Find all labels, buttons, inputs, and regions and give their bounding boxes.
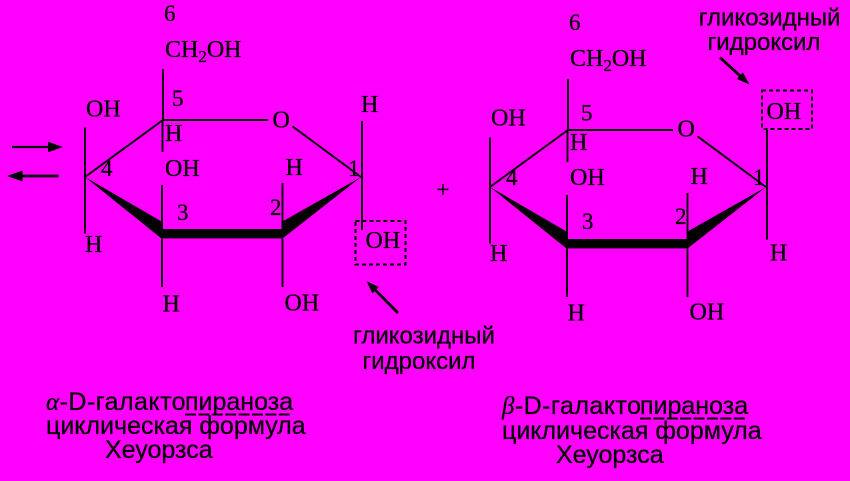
svg-text:β-D-галакто: β-D-галакто — [501, 392, 641, 420]
svg-text:OH: OH — [366, 228, 401, 254]
svg-text:4: 4 — [101, 156, 113, 181]
svg-text:5: 5 — [172, 86, 184, 111]
svg-text:3: 3 — [177, 200, 189, 225]
svg-text:2: 2 — [270, 195, 282, 220]
svg-text:гликозидный: гликозидный — [699, 5, 841, 32]
svg-text:H: H — [163, 292, 180, 318]
svg-text:H: H — [165, 121, 182, 147]
svg-text:H: H — [286, 155, 303, 181]
svg-text:5: 5 — [581, 101, 593, 126]
svg-text:H: H — [361, 92, 378, 118]
svg-text:+: + — [437, 177, 450, 202]
svg-text:OH: OH — [165, 156, 200, 182]
svg-text:гликозидный: гликозидный — [353, 323, 495, 350]
svg-text:1: 1 — [348, 156, 360, 181]
svg-text:OH: OH — [285, 291, 320, 317]
svg-text:H: H — [770, 241, 787, 267]
svg-text:Хеуорзса: Хеуорзса — [105, 436, 213, 464]
svg-text:гидроксил: гидроксил — [707, 29, 820, 56]
svg-text:Хеуорзса: Хеуорзса — [556, 441, 664, 469]
svg-text:OH: OH — [86, 97, 121, 123]
svg-text:гидроксил: гидроксил — [362, 348, 475, 375]
svg-text:OH: OH — [767, 99, 802, 125]
svg-text:O: O — [273, 108, 290, 134]
svg-text:пираноза: пираноза — [640, 392, 748, 420]
svg-text:H: H — [85, 232, 102, 258]
svg-text:6: 6 — [164, 1, 176, 26]
